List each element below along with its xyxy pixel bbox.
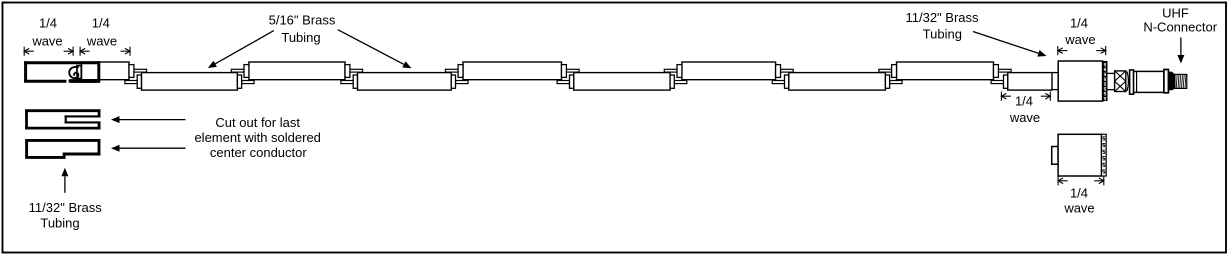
svg-text:N-Connector: N-Connector bbox=[1143, 20, 1217, 35]
svg-text:5/16" Brass: 5/16" Brass bbox=[269, 13, 336, 28]
svg-text:1/4: 1/4 bbox=[1070, 16, 1088, 31]
svg-text:Tubing: Tubing bbox=[40, 216, 79, 231]
svg-text:1/4: 1/4 bbox=[1015, 94, 1033, 109]
svg-text:wave: wave bbox=[31, 34, 62, 49]
svg-text:wave: wave bbox=[1009, 110, 1040, 125]
svg-text:11/32" Brass: 11/32" Brass bbox=[29, 200, 103, 215]
svg-text:wave: wave bbox=[1063, 201, 1094, 216]
svg-text:UHF: UHF bbox=[1162, 5, 1189, 20]
svg-text:1/4: 1/4 bbox=[1070, 186, 1088, 201]
svg-text:wave: wave bbox=[86, 34, 117, 49]
svg-text:element with soldered: element with soldered bbox=[194, 130, 320, 145]
svg-text:1/4: 1/4 bbox=[39, 16, 57, 31]
svg-text:Tubing: Tubing bbox=[923, 27, 962, 42]
svg-text:center conductor: center conductor bbox=[210, 145, 308, 160]
svg-text:11/32" Brass: 11/32" Brass bbox=[905, 10, 979, 25]
svg-text:Cut out for last: Cut out for last bbox=[215, 115, 300, 130]
svg-text:wave: wave bbox=[1064, 32, 1095, 47]
svg-text:1/4: 1/4 bbox=[92, 16, 110, 31]
svg-text:Tubing: Tubing bbox=[281, 30, 320, 45]
